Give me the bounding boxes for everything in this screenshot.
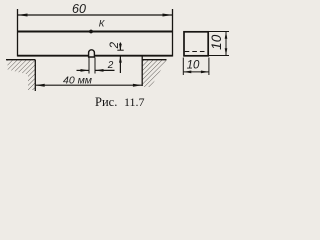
cross-section square (184, 32, 208, 56)
notch (slot in bottom edge) (89, 50, 95, 57)
right support hatching (142, 60, 166, 87)
square bottom extension lines (182, 58, 184, 76)
svg-text:2: 2 (109, 41, 121, 49)
notch depth dimension 2 (vertical, arrows outside) (119, 43, 122, 74)
notch extension line left (88, 58, 90, 74)
svg-text:10: 10 (187, 60, 200, 72)
svg-text:2: 2 (107, 60, 114, 71)
dimension line 60 (18, 14, 173, 17)
dimension line 40 mm (between supports) (36, 84, 142, 87)
svg-text:60: 60 (72, 2, 86, 16)
left support face line (34, 60, 36, 91)
svg-text:10: 10 (209, 34, 224, 50)
cross-section dashed axis (185, 51, 208, 53)
notch extension line right (94, 58, 96, 74)
square height dimension 10 (vertical) (225, 32, 228, 56)
beam body outline (18, 32, 173, 56)
svg-text:Рис.: Рис. (95, 95, 117, 109)
notch width dimension 2 (arrows outside pointing inward) (77, 69, 115, 72)
left support hatching (8, 60, 36, 90)
point K dot (89, 30, 93, 34)
svg-text:11.7: 11.7 (124, 95, 145, 109)
notch depth tick (extension of notch top level) (117, 49, 123, 51)
square right extension lines (209, 31, 230, 33)
right support surface line (142, 59, 166, 61)
left support surface line (6, 59, 35, 61)
svg-text:40 мм: 40 мм (63, 74, 92, 86)
square width dimension 10 (183, 71, 209, 74)
beam left edge + extension line (17, 9, 19, 57)
right support face line (141, 57, 143, 87)
beam right edge + extension line (172, 9, 174, 57)
